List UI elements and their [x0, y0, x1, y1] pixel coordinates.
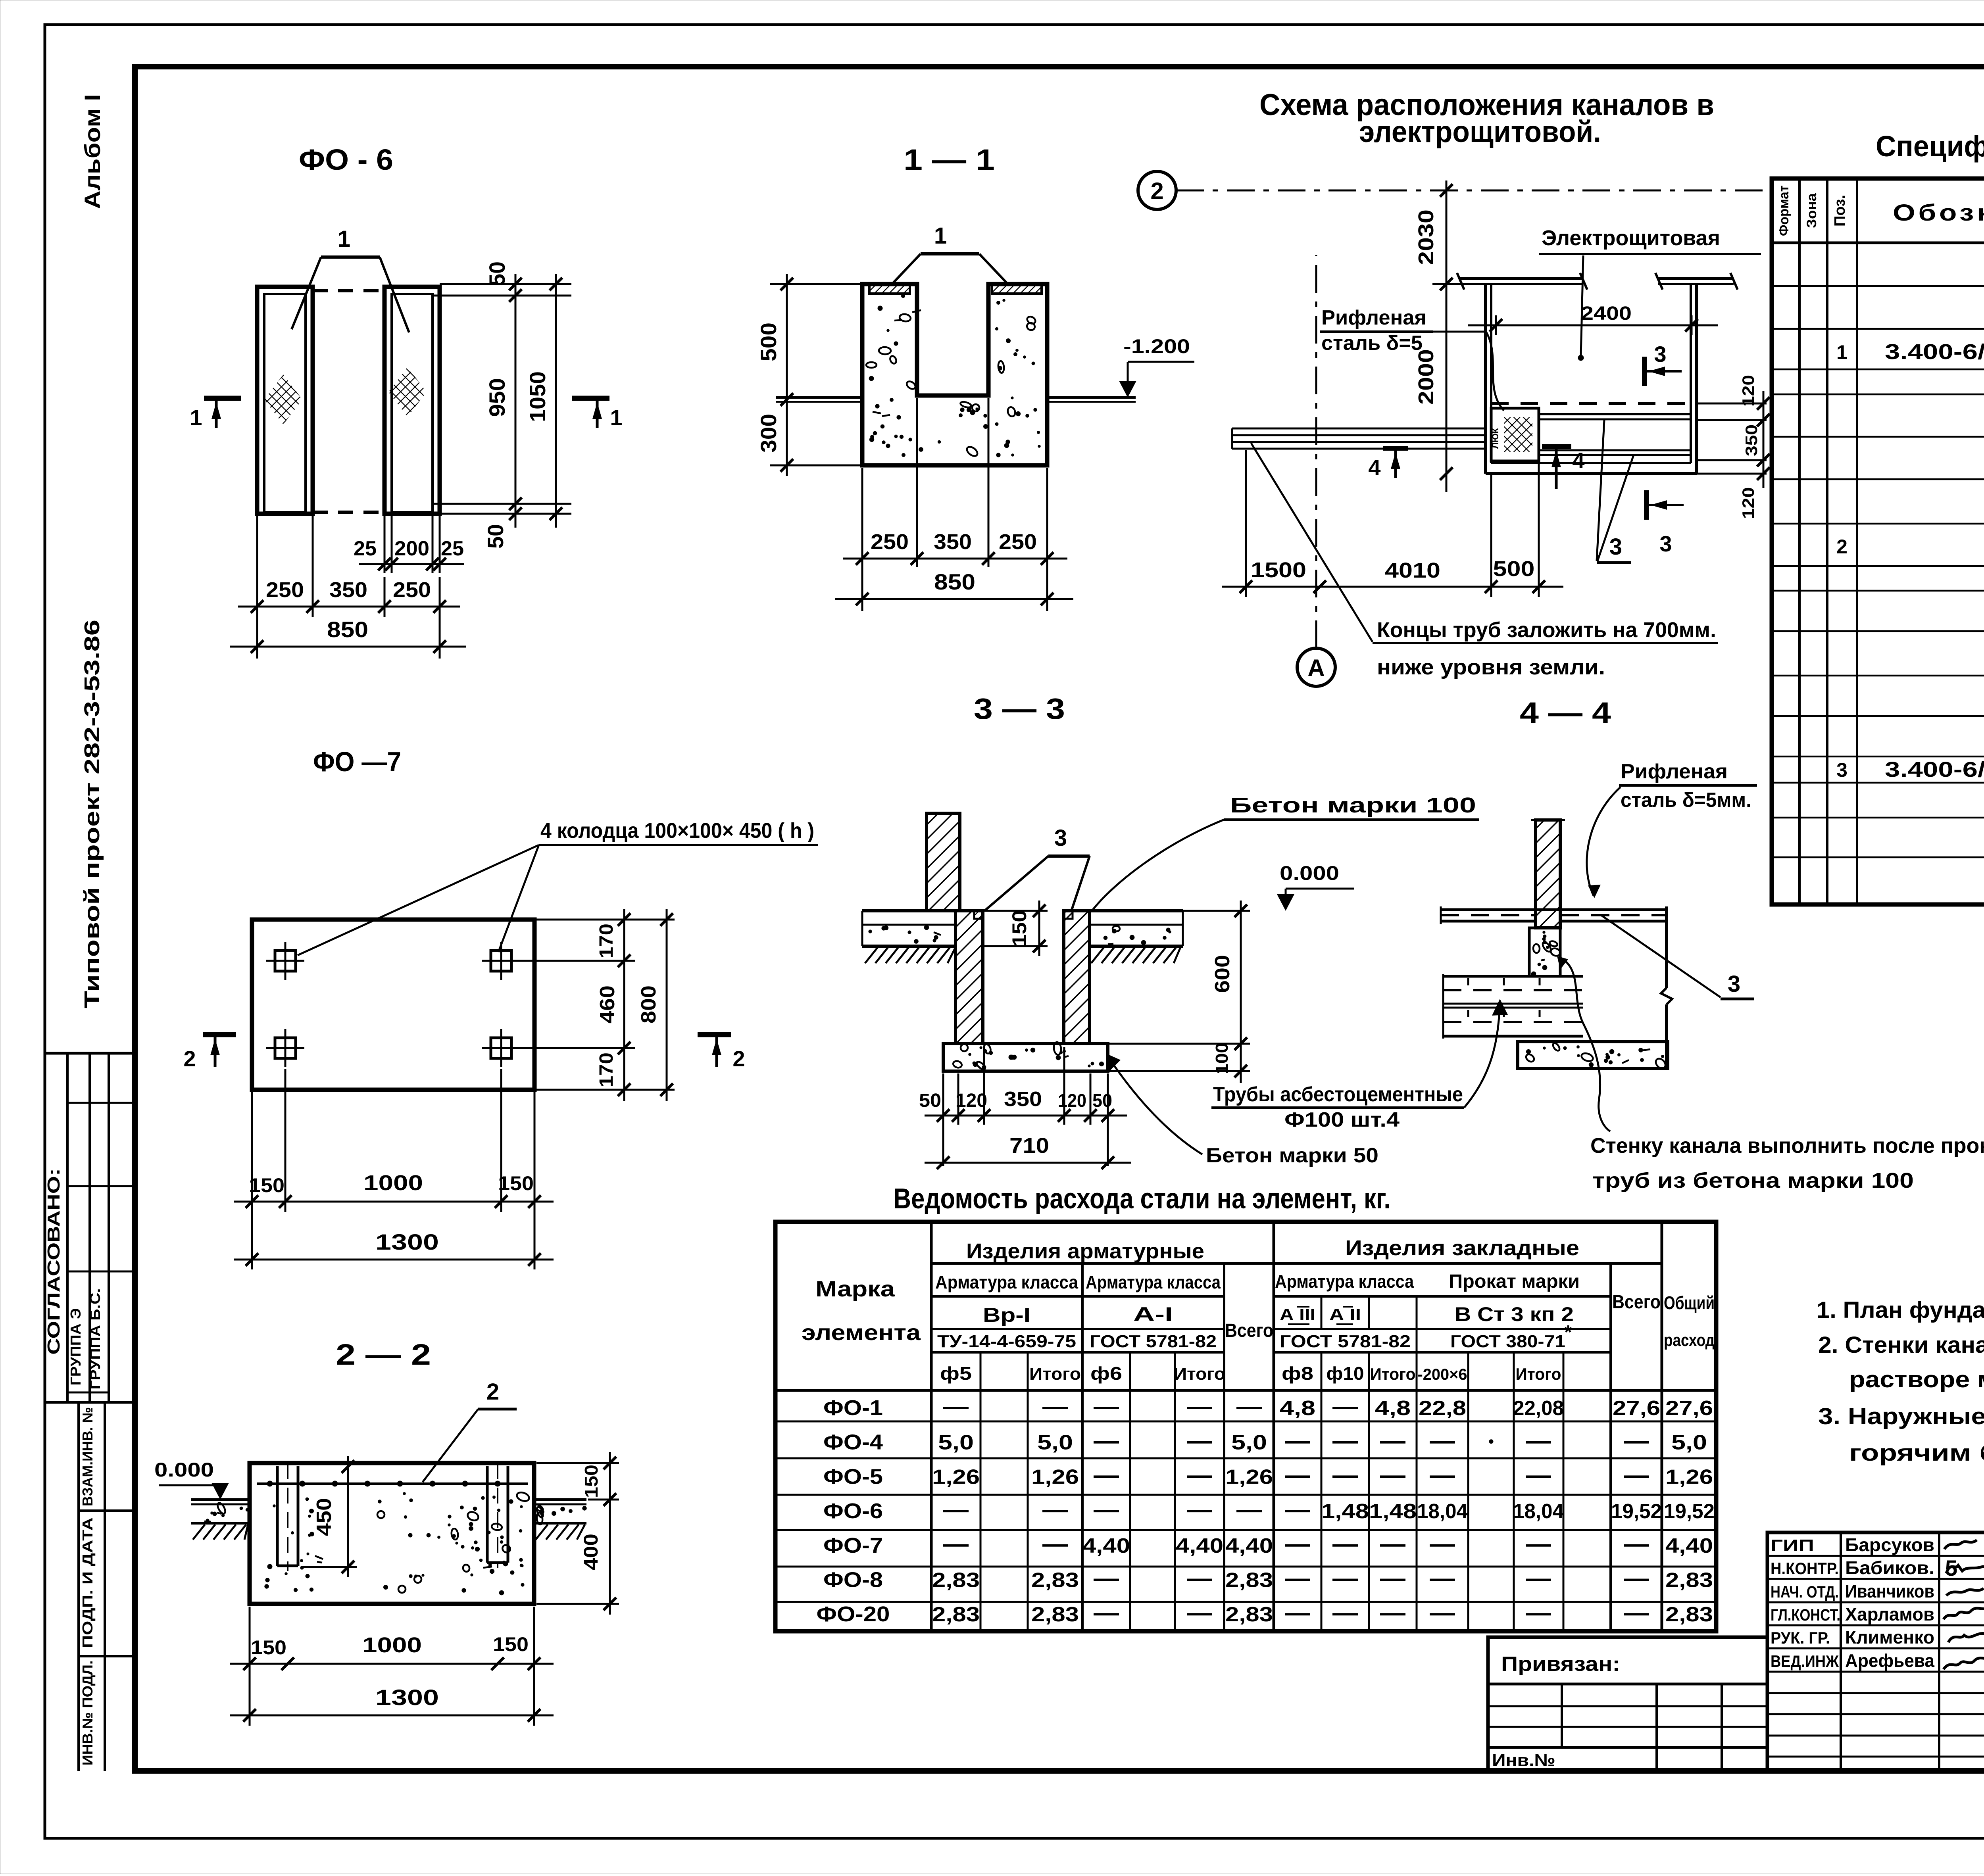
section 1-1 left dimension 500/300 — [756, 274, 862, 476]
svg-text:Ведомость расхода стали на эле: Ведомость расхода стали на элемент, кг. — [894, 1183, 1391, 1215]
svg-text:Стенку канала выполнить после: Стенку канала выполнить после прокладки — [1590, 1134, 1984, 1158]
svg-text:Иванчиков: Иванчиков — [1845, 1581, 1934, 1601]
2-2 ground right — [534, 1500, 587, 1540]
section mark 3 lower — [1646, 490, 1684, 556]
svg-text:350: 350 — [329, 578, 367, 602]
FO-6 right dimension chain 50/950/50 — [433, 261, 571, 549]
svg-text:1: 1 — [1836, 341, 1848, 363]
stamp: VZAM.INV column — [45, 1402, 135, 1771]
svg-text:4,40: 4,40 — [1082, 1534, 1130, 1557]
svg-text:Итого: Итого — [1174, 1364, 1225, 1384]
svg-text:В Ст 3 кп 2: В Ст 3 кп 2 — [1455, 1303, 1574, 1325]
FO-6 right dimension 1050 — [525, 274, 562, 528]
svg-text:27,6: 27,6 — [1613, 1397, 1660, 1420]
svg-text:1: 1 — [338, 226, 350, 252]
3-3 right dimension 600/100 — [1108, 901, 1250, 1083]
right dimension 120/350/120 — [1697, 375, 1770, 519]
steel table data rows — [817, 1396, 1715, 1626]
svg-text:2,83: 2,83 — [1665, 1603, 1713, 1626]
2-2 bottom dim 1300 — [230, 1685, 554, 1722]
svg-text:150: 150 — [251, 1636, 286, 1659]
svg-text:ФО-6: ФО-6 — [823, 1499, 883, 1523]
3-3 level mark 0.000 — [1277, 862, 1354, 911]
2-2 bottom dims 150/1000/150 — [230, 1607, 554, 1726]
svg-text:5,0: 5,0 — [1671, 1431, 1707, 1454]
FO-6 right sleeve outer — [384, 287, 440, 514]
svg-text:1,26: 1,26 — [932, 1465, 980, 1488]
svg-text:Арматура класса: Арматура класса — [1275, 1271, 1414, 1292]
svg-text:500: 500 — [1493, 557, 1535, 581]
svg-text:50: 50 — [483, 524, 508, 549]
FO-6 section mark 1 right — [572, 398, 623, 430]
svg-text:Всего: Всего — [1612, 1292, 1661, 1313]
4-4 pier leader wavy — [1557, 956, 1610, 1131]
svg-text:4 колодца 100×100× 450 ( h ): 4 колодца 100×100× 450 ( h ) — [540, 819, 814, 843]
FO-6 section mark 1 left — [190, 398, 241, 430]
svg-text:0.000: 0.000 — [1280, 862, 1339, 884]
room ceiling bar right — [1655, 273, 1738, 290]
svg-text:сталь δ=5мм.: сталь δ=5мм. — [1621, 789, 1751, 812]
svg-text:25: 25 — [441, 537, 464, 560]
svg-text:ГИП: ГИП — [1771, 1536, 1814, 1555]
FO-6 left sleeve outer — [257, 287, 313, 514]
svg-text:3. Наружные поверхности кан: 3. Наружные поверхности каналов окрасить — [1818, 1404, 1984, 1429]
svg-text:Арматура класса: Арматура класса — [935, 1272, 1078, 1292]
svg-text:3: 3 — [1054, 825, 1067, 851]
svg-text:Электрощитовая: Электрощитовая — [1542, 226, 1720, 250]
svg-text:2: 2 — [486, 1379, 499, 1405]
svg-text:Н.КОНТР.: Н.КОНТР. — [1771, 1559, 1839, 1578]
2-2 leader item 2 — [423, 1379, 517, 1482]
4-4 concrete pier — [1529, 928, 1561, 976]
title section 4-4 — [1520, 696, 1611, 729]
3-3 channel wall right hatched — [1064, 911, 1090, 1044]
svg-text:2,83: 2,83 — [1031, 1569, 1079, 1592]
svg-text:ФО-5: ФО-5 — [823, 1465, 883, 1488]
svg-text:3: 3 — [1654, 342, 1666, 367]
2-2 foundation block — [250, 1463, 534, 1604]
svg-text:Бетон марки 50: Бетон марки 50 — [1206, 1144, 1378, 1167]
FO-7 slab outline — [252, 920, 534, 1090]
FO-6 dashed foundation edges — [313, 291, 384, 512]
svg-text:А III: А III — [1280, 1305, 1315, 1324]
svg-text:22,8: 22,8 — [1419, 1397, 1466, 1420]
svg-text:50: 50 — [1092, 1090, 1112, 1111]
svg-text:Спецификация монолитных констр: Спецификация монолитных конструкций — [1876, 130, 1984, 163]
svg-text:ПОДП. И ДАТА: ПОДП. И ДАТА — [79, 1517, 96, 1648]
svg-text:Итого: Итого — [1370, 1365, 1416, 1383]
leader item 3 bottom — [1597, 420, 1634, 563]
4-4 steel floor band — [1441, 906, 1667, 924]
svg-text:2: 2 — [183, 1046, 196, 1071]
svg-text:Бетон марки 100: Бетон марки 100 — [1230, 793, 1476, 817]
svg-text:950: 950 — [484, 378, 509, 417]
FO-7 anchor wells — [266, 942, 520, 1067]
title FO-6 — [299, 143, 393, 176]
svg-text:труб из бетона марки 100: труб из бетона марки 100 — [1592, 1169, 1914, 1192]
svg-text:120: 120 — [955, 1090, 987, 1111]
svg-text:Барсуков: Барсуков — [1845, 1534, 1934, 1555]
svg-text:ф8: ф8 — [1282, 1363, 1313, 1384]
spec row mesh — [1836, 529, 1984, 567]
2-2 dim 450 — [302, 1456, 357, 1577]
svg-text:Изделия арматурные: Изделия арматурные — [966, 1239, 1204, 1263]
svg-text:1,48: 1,48 — [1369, 1500, 1417, 1523]
room right wall — [1691, 284, 1697, 474]
title block signature table — [1767, 1532, 1984, 1771]
4-4 channel wall edge with break — [1661, 906, 1672, 1066]
svg-text:ФО —7: ФО —7 — [313, 746, 401, 777]
title section 3-3 — [974, 692, 1065, 725]
svg-text:электрощитовой.: электрощитовой. — [1359, 115, 1601, 149]
FO-7 label 4 wells — [298, 819, 818, 955]
svg-text:4: 4 — [1368, 455, 1380, 480]
notes list — [1817, 1297, 1984, 1466]
svg-text:Концы труб заложить на 700мм.: Концы труб заложить на 700мм. — [1377, 618, 1716, 642]
svg-text:500: 500 — [756, 323, 781, 361]
specification header texts — [1776, 185, 1984, 236]
channel steel cover plate — [1490, 408, 1539, 461]
FO-6 leader item 1 — [292, 226, 409, 332]
3-3 floor slab left — [862, 911, 957, 963]
spec row embedded item MI4-46 V1000 — [1836, 755, 1984, 782]
svg-text:2400: 2400 — [1581, 303, 1632, 324]
FO-6 bottom dimension 850 — [230, 617, 466, 653]
4-4 footing — [1518, 1042, 1668, 1070]
title block signatures — [1944, 1540, 1984, 1669]
2-2 mesh item 2 — [257, 1481, 528, 1486]
svg-text:1,26: 1,26 — [1665, 1465, 1713, 1488]
spec row embedded item MI4-46 — [1836, 340, 1984, 364]
svg-text:2,83: 2,83 — [1665, 1569, 1713, 1592]
svg-text:ТУ-14-4-659-75: ТУ-14-4-659-75 — [937, 1332, 1076, 1351]
svg-text:Рифленая: Рифленая — [1621, 760, 1728, 783]
svg-text:18,04: 18,04 — [1513, 1500, 1564, 1523]
FO-6 right hatch patch — [388, 367, 427, 417]
svg-text:800: 800 — [637, 985, 660, 1023]
section 1-1 concrete U-block — [862, 284, 1047, 465]
svg-text:710: 710 — [1009, 1134, 1049, 1158]
2-2 right dims 150/400 — [536, 1452, 619, 1615]
svg-text:4010: 4010 — [1385, 559, 1440, 582]
svg-text:450: 450 — [313, 1498, 336, 1536]
FO-7 bottom dims 150/1000/150 — [234, 1069, 554, 1269]
svg-text:ГОСТ 5781-82: ГОСТ 5781-82 — [1280, 1332, 1411, 1351]
svg-text:250: 250 — [266, 578, 304, 602]
svg-text:ФО-4: ФО-4 — [823, 1431, 883, 1454]
svg-text:ф10: ф10 — [1327, 1363, 1364, 1384]
axis 2 dash-dot line — [1176, 190, 1768, 192]
svg-text:Ф100 шт.4: Ф100 шт.4 — [1284, 1108, 1400, 1131]
room bottom wall — [1486, 463, 1697, 474]
4-4 pipes leader — [1464, 999, 1508, 1108]
svg-text:Альбом I: Альбом I — [80, 94, 105, 209]
label electroshchitovaya — [1539, 226, 1761, 361]
label concrete 50 — [1106, 1054, 1378, 1167]
svg-text:А-I: А-I — [1133, 1303, 1173, 1325]
svg-text:Бабиков.: Бабиков. — [1845, 1557, 1934, 1578]
svg-text:горячим битумом за 2 раз: горячим битумом за 2 раза. — [1849, 1440, 1984, 1466]
3-3 embedded angles at channel top — [974, 911, 1073, 919]
stamp: PODP I DATA column — [79, 1517, 135, 1656]
room left wall — [1486, 284, 1491, 474]
svg-text:1. План фундаментов см. лист: 1. План фундаментов см. лист КЖ-14. — [1817, 1297, 1984, 1323]
svg-text:1: 1 — [190, 405, 202, 430]
schema title line 1 — [1259, 88, 1714, 122]
specification title — [1876, 130, 1984, 163]
svg-text:расход: расход — [1664, 1331, 1715, 1350]
svg-text:Формат: Формат — [1776, 185, 1792, 236]
svg-text:3.400-6/76: 3.400-6/76 — [1885, 758, 1984, 782]
svg-text:ф5: ф5 — [940, 1363, 972, 1384]
svg-text:150: 150 — [1008, 910, 1030, 947]
svg-text:элемента: элемента — [802, 1320, 921, 1345]
FO-7 right dim 800 — [637, 909, 673, 1101]
svg-text:А II: А II — [1329, 1305, 1361, 1324]
svg-text:250: 250 — [393, 578, 431, 602]
svg-text:*: * — [1565, 1322, 1572, 1343]
3-3 footing concrete 50 — [943, 1042, 1108, 1071]
svg-text:Обозначение: Обозначение — [1893, 200, 1984, 226]
svg-text:3: 3 — [1609, 534, 1622, 560]
3-3 leader item 3 — [984, 825, 1090, 911]
svg-text:120: 120 — [1739, 487, 1757, 519]
svg-text:1,48: 1,48 — [1321, 1500, 1369, 1523]
svg-text:2,83: 2,83 — [1225, 1569, 1273, 1592]
svg-text:ГРУППА Б.С.: ГРУППА Б.С. — [87, 1288, 103, 1390]
svg-text:4,40: 4,40 — [1665, 1534, 1713, 1557]
2-2 level mark 0.000 — [154, 1459, 229, 1500]
channel hidden dashed edge — [1491, 402, 1691, 405]
note pipe ends — [1251, 443, 1718, 679]
svg-text:Изделия закладные: Изделия закладные — [1345, 1236, 1579, 1260]
svg-text:3: 3 — [1836, 759, 1848, 781]
svg-text:25: 25 — [354, 537, 377, 560]
svg-text:растворе марки 25: растворе марки 25 — [1849, 1367, 1984, 1392]
3-3 dim 150 floor — [983, 901, 1048, 956]
FO-6 bottom dimension 25/200/25 — [354, 512, 464, 573]
svg-text:ф6: ф6 — [1090, 1363, 1122, 1384]
svg-text:4,40: 4,40 — [1176, 1534, 1223, 1557]
3-3 bottom dim 710 — [925, 1134, 1131, 1169]
svg-text:3.400-6/76: 3.400-6/76 — [1885, 340, 1984, 364]
svg-text:Итого: Итого — [1516, 1365, 1561, 1383]
svg-text:1050: 1050 — [525, 371, 550, 422]
svg-text:2: 2 — [1150, 178, 1163, 204]
stamp: INV No PODL column — [79, 1661, 96, 1766]
svg-text:Типовой проект 282-3-53.86: Типовой проект 282-3-53.86 — [80, 620, 104, 1008]
stamp: agreement box SOGLASOVANO — [44, 1053, 135, 1402]
svg-text:сталь δ=5: сталь δ=5 — [1321, 332, 1423, 355]
svg-text:2,83: 2,83 — [932, 1569, 980, 1592]
svg-text:3: 3 — [1728, 971, 1740, 997]
steel table grid — [775, 1222, 1716, 1631]
svg-text:1300: 1300 — [375, 1229, 439, 1254]
svg-text:2030: 2030 — [1414, 209, 1438, 265]
svg-text:3: 3 — [1659, 531, 1672, 556]
svg-text:Марка: Марка — [815, 1276, 895, 1301]
svg-text:2: 2 — [732, 1046, 745, 1071]
svg-text:1: 1 — [934, 223, 947, 249]
label riflenaya stal b=5 — [1320, 306, 1504, 411]
2-2 well right — [487, 1463, 508, 1568]
axis A dash-dot line — [1315, 255, 1317, 648]
4-4 label riflenaya stal — [1587, 760, 1757, 898]
title section 2-2 — [336, 1338, 431, 1371]
svg-text:ГОСТ 380-71: ГОСТ 380-71 — [1450, 1332, 1565, 1351]
label asbestos pipes — [1211, 1083, 1464, 1131]
svg-text:Зона: Зона — [1804, 193, 1819, 228]
svg-text:ФО-7: ФО-7 — [823, 1534, 883, 1557]
svg-text:ФО-8: ФО-8 — [823, 1568, 883, 1592]
4-4 pipes in section — [1443, 974, 1583, 1039]
svg-text:2,83: 2,83 — [932, 1603, 980, 1626]
stamp: Album I vertical label — [80, 94, 105, 209]
svg-text:27,6: 27,6 — [1665, 1397, 1713, 1420]
section mark 4 inner — [1542, 447, 1585, 489]
svg-text:1,26: 1,26 — [1031, 1465, 1079, 1488]
asbestos pipes band in plan — [1232, 428, 1486, 449]
svg-text:4: 4 — [1572, 448, 1584, 473]
svg-text:5,0: 5,0 — [1231, 1431, 1267, 1454]
svg-text:0.000: 0.000 — [154, 1459, 214, 1481]
svg-text:3 — 3: 3 — 3 — [974, 692, 1065, 725]
svg-text:50: 50 — [484, 261, 509, 286]
FO-7 section mark 2 right — [698, 1035, 745, 1071]
svg-text:1,26: 1,26 — [1225, 1465, 1273, 1488]
channel wall lines in plan — [1539, 414, 1691, 455]
svg-text:4,8: 4,8 — [1375, 1397, 1411, 1420]
svg-text:850: 850 — [934, 569, 975, 594]
privyazan box — [1488, 1637, 1767, 1771]
room ceiling bar left — [1457, 273, 1587, 290]
svg-text:250: 250 — [871, 530, 909, 554]
section mark 3 upper — [1644, 342, 1682, 386]
svg-text:СОГЛАСОВАНО:: СОГЛАСОВАНО: — [44, 1168, 63, 1355]
FO-6 bottom dimension 250/350/250 — [238, 516, 460, 659]
svg-text:600: 600 — [1211, 955, 1234, 993]
FO-7 bottom dim 1300 — [234, 1229, 554, 1266]
svg-text:5,0: 5,0 — [1037, 1431, 1073, 1454]
svg-text:150: 150 — [493, 1633, 529, 1655]
svg-text:1000: 1000 — [363, 1171, 423, 1195]
svg-text:2: 2 — [1836, 536, 1848, 558]
svg-text:2,83: 2,83 — [1031, 1603, 1079, 1626]
svg-text:100: 100 — [1212, 1043, 1232, 1074]
svg-text:РУК. ГР.: РУК. ГР. — [1771, 1628, 1830, 1647]
FO-7 right dims 170/460/170 — [520, 909, 675, 1101]
svg-text:ФО-1: ФО-1 — [823, 1396, 883, 1420]
specification table grid — [1772, 179, 1984, 904]
4-4 leader item 3 — [1601, 915, 1754, 999]
svg-text:120: 120 — [1739, 375, 1757, 407]
svg-text:150: 150 — [249, 1174, 285, 1196]
svg-text:Вр-I: Вр-I — [983, 1304, 1030, 1326]
svg-text:4,40: 4,40 — [1225, 1534, 1273, 1557]
svg-text:Арматура класса: Арматура класса — [1086, 1272, 1221, 1292]
svg-text:Харламов: Харламов — [1845, 1604, 1934, 1624]
svg-text:2 — 2: 2 — 2 — [336, 1338, 431, 1371]
svg-text:1500: 1500 — [1251, 558, 1306, 582]
svg-text:-200×6: -200×6 — [1418, 1366, 1467, 1383]
3-3 upper wall hatched — [927, 813, 960, 911]
section 1-1 ground line — [776, 397, 1136, 402]
svg-text:350: 350 — [934, 530, 972, 554]
label concrete 100 — [1091, 793, 1479, 912]
section 1-1 bottom dimension 250/350/250 — [843, 398, 1067, 611]
svg-text:Общий: Общий — [1664, 1292, 1715, 1313]
svg-text:170: 170 — [596, 1052, 617, 1087]
svg-text:ФО-20: ФО-20 — [817, 1602, 890, 1626]
svg-text:ГОСТ 5781-82: ГОСТ 5781-82 — [1090, 1332, 1217, 1351]
svg-text:Инв.№: Инв.№ — [1492, 1751, 1555, 1770]
svg-text:120: 120 — [1058, 1090, 1086, 1111]
section 1-1 bottom dimension 850 — [835, 569, 1073, 605]
svg-text:ИНВ.№ ПОДЛ.: ИНВ.№ ПОДЛ. — [79, 1661, 96, 1766]
svg-text:5: 5 — [1945, 1555, 1957, 1580]
svg-text:1 — 1: 1 — 1 — [904, 143, 995, 176]
stamp: Typical project number vertical label — [80, 620, 104, 1008]
svg-text:1000: 1000 — [362, 1633, 422, 1657]
svg-text:2000: 2000 — [1414, 349, 1438, 405]
svg-text:ГЛ.КОНСТ.: ГЛ.КОНСТ. — [1771, 1605, 1840, 1624]
svg-text:Привязан:: Привязан: — [1501, 1653, 1620, 1676]
svg-text:Трубы асбестоцементные: Трубы асбестоцементные — [1213, 1083, 1463, 1106]
axis node 2 circle — [1138, 171, 1176, 209]
svg-text:150: 150 — [581, 1465, 602, 1498]
svg-text:350: 350 — [1004, 1088, 1042, 1111]
svg-text:-1.200: -1.200 — [1123, 335, 1190, 357]
svg-text:ЛЮК: ЛЮК — [1490, 428, 1500, 449]
svg-text:А: А — [1307, 655, 1325, 681]
svg-text:200: 200 — [394, 537, 429, 560]
svg-text:18,04: 18,04 — [1417, 1500, 1468, 1523]
svg-text:460: 460 — [596, 985, 619, 1023]
svg-text:50: 50 — [919, 1090, 941, 1111]
note channel wall after pipes — [1590, 1134, 1984, 1192]
dimension 2030/2000 vertical — [1414, 180, 1468, 492]
svg-text:Арефьева: Арефьева — [1845, 1650, 1934, 1671]
svg-text:1: 1 — [610, 405, 622, 430]
svg-text:ВЗАМ.ИНВ. №: ВЗАМ.ИНВ. № — [79, 1407, 96, 1506]
FO-6 left hatch patch — [264, 374, 302, 424]
svg-text:170: 170 — [596, 924, 617, 958]
svg-text:Итого: Итого — [1029, 1364, 1081, 1384]
svg-text:Рифленая: Рифленая — [1321, 306, 1426, 329]
3-3 channel wall left hatched — [955, 911, 983, 1044]
svg-text:Клименко: Клименко — [1845, 1627, 1934, 1648]
svg-text:300: 300 — [756, 414, 781, 453]
section 1-1 leader item 1 — [892, 223, 1008, 284]
svg-text:350: 350 — [1742, 424, 1761, 456]
svg-text:250: 250 — [999, 530, 1037, 554]
dimension 2400 — [1468, 303, 1718, 335]
section mark 4 left — [1368, 448, 1408, 480]
axis node A circle — [1297, 648, 1335, 686]
svg-text:Всего: Всего — [1225, 1320, 1273, 1341]
svg-text:ФО - 6: ФО - 6 — [299, 143, 393, 176]
title section 1-1 — [904, 143, 995, 176]
4-4 wall hatched — [1531, 820, 1565, 928]
steel table title — [894, 1183, 1391, 1215]
3-3 floor slab right — [1090, 911, 1183, 963]
schema title line 2 — [1359, 115, 1601, 149]
svg-text:19,52: 19,52 — [1664, 1500, 1715, 1523]
svg-text:Прокат марки: Прокат марки — [1449, 1271, 1580, 1292]
2-2 well left — [277, 1463, 298, 1571]
svg-text:22,08: 22,08 — [1513, 1397, 1564, 1420]
svg-text:1300: 1300 — [375, 1685, 439, 1710]
